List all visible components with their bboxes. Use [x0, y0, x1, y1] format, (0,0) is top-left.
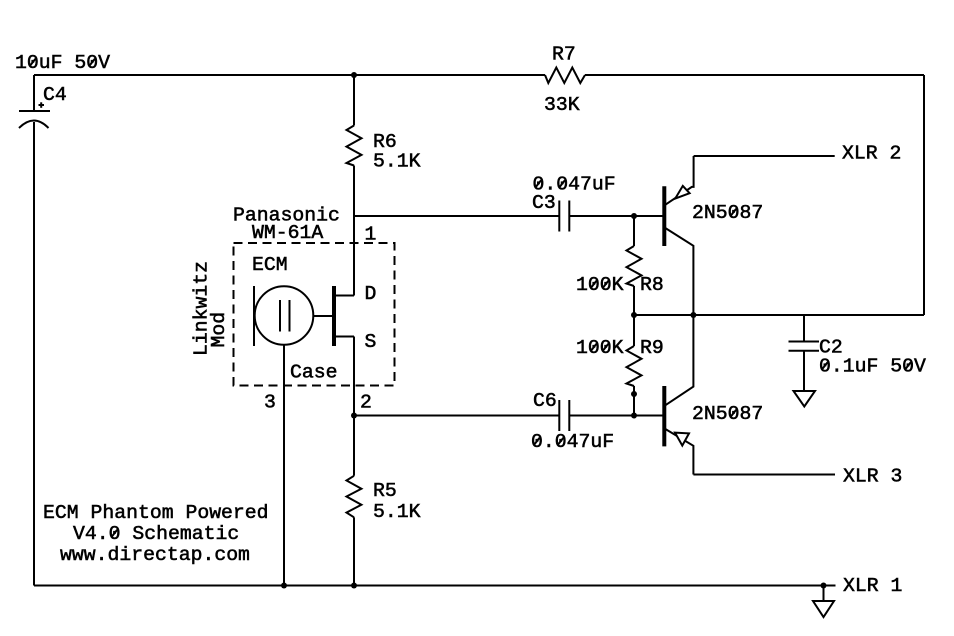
wire: right vertical rail — [923, 75, 925, 315]
resistor R6 — [347, 126, 362, 166]
svg-text:C6: C6 — [533, 390, 557, 412]
capsule plate bar right — [289, 300, 291, 332]
svg-text:R8: R8 — [640, 274, 664, 296]
wire: FET source stub — [334, 336, 354, 338]
capacitor C3 — [558, 201, 560, 232]
wire: XLR1 ground stub — [823, 586, 825, 602]
svg-text:R9: R9 — [640, 337, 664, 359]
wire: top rail right segment — [585, 74, 924, 76]
wire: R9 bottom lead — [633, 386, 635, 416]
svg-text:S: S — [365, 331, 377, 353]
node junction Q1 collector/mid rail — [690, 312, 696, 318]
node junction top rail / R6 — [351, 72, 357, 78]
capacitor C6 — [558, 400, 560, 431]
FET gate/channel bar — [332, 286, 336, 346]
wire: C6 to Q2 base — [570, 415, 663, 417]
svg-text:2N5087: 2N5087 — [692, 202, 763, 224]
svg-text:0.047uF: 0.047uF — [533, 174, 616, 196]
svg-text:2: 2 — [360, 392, 372, 414]
wire: case lead down from capsule — [283, 345, 285, 586]
node junction case/ground rail — [281, 583, 287, 589]
node junction R8/mid rail — [631, 312, 637, 318]
wire: capsule gate lead — [313, 315, 334, 317]
C4 plus sign — [39, 104, 45, 106]
svg-text:10uF 50V: 10uF 50V — [15, 52, 110, 74]
resistor R5 — [347, 476, 362, 518]
svg-text:5.1K: 5.1K — [373, 501, 421, 523]
svg-text:Case: Case — [290, 362, 337, 384]
wire: Q2 emitter diagonal — [665, 429, 694, 475]
wire: mid horizontal rail (collector bus) — [634, 314, 924, 316]
svg-text:33K: 33K — [544, 94, 580, 116]
svg-text:R7: R7 — [552, 44, 576, 66]
capacitor C2 lead — [803, 315, 805, 342]
resistor R9 — [627, 346, 642, 386]
svg-text:www.directap.com: www.directap.com — [60, 544, 250, 566]
capacitor C4 — [33, 75, 35, 111]
Q1 emitter arrow — [675, 186, 689, 199]
wire: pin 1 net to C3 — [354, 215, 559, 217]
node junction ground rail/XLR1 — [821, 583, 827, 589]
wire: XLR 3 output lead — [693, 474, 835, 476]
node junction R9/C6 net — [631, 413, 637, 419]
wire: C2 to ground — [803, 351, 805, 391]
wire: R9 top lead — [633, 315, 635, 346]
svg-text:0.1uF 50V: 0.1uF 50V — [819, 356, 926, 378]
svg-text:2N5087: 2N5087 — [692, 403, 763, 425]
resistor R7 — [545, 68, 585, 84]
svg-text:C4: C4 — [43, 84, 67, 106]
wire: FET drain stub — [334, 295, 354, 297]
resistor R8 — [627, 246, 642, 286]
Q2 emitter arrow — [675, 433, 689, 446]
transistor Q1 2N5087 base bar — [662, 186, 666, 246]
svg-text:5.1K: 5.1K — [373, 151, 421, 173]
wire: R8 bottom lead — [633, 286, 635, 315]
transistor Q2 2N5087 base bar — [662, 386, 666, 446]
svg-text:3: 3 — [264, 392, 276, 414]
wire: Q2 collector diagonal — [665, 315, 694, 406]
svg-text:XLR 1: XLR 1 — [843, 575, 902, 597]
svg-text:ECM: ECM — [252, 254, 288, 276]
node junction R5/ground rail — [351, 583, 357, 589]
svg-text:XLR 2: XLR 2 — [842, 143, 901, 165]
electret capsule diaphragm bar — [253, 286, 255, 346]
wire: XLR 2 output lead — [694, 155, 835, 157]
slashed-zero tick marks — [30, 59, 911, 537]
wire: Q1 emitter diagonal — [665, 156, 694, 205]
electret capsule circle — [255, 286, 314, 345]
wire: C3 to Q1 base — [570, 215, 663, 217]
node junction C3/R8 — [631, 213, 637, 219]
svg-text:0.047uF: 0.047uF — [531, 431, 614, 453]
wire: C6 net from pin 2 — [354, 415, 559, 417]
wire: Q1 collector diagonal — [665, 228, 694, 316]
wire: R6 top lead — [353, 75, 355, 126]
svg-text:Mod: Mod — [208, 312, 230, 348]
svg-text:V4.0 Schematic: V4.0 Schematic — [73, 523, 239, 545]
wire: FET source down to ground rail — [353, 337, 355, 476]
svg-text:D: D — [365, 283, 377, 305]
svg-text:XLR 3: XLR 3 — [843, 466, 902, 488]
ground (XLR1) — [813, 601, 834, 617]
wire: top rail left segment (V+ net) — [34, 74, 545, 76]
ground (C2) — [794, 391, 816, 407]
dashed ECM module boundary box — [234, 243, 395, 386]
wire: left vertical rail — [33, 122, 35, 586]
wire: R5 bottom lead — [353, 517, 355, 585]
svg-text:100K: 100K — [576, 274, 624, 296]
node junction pin2/C6 net — [351, 413, 357, 419]
svg-text:100K: 100K — [576, 337, 624, 359]
wire: R6 bottom lead to FET drain — [353, 166, 355, 296]
capsule plate bar left — [279, 300, 281, 332]
wire: R8 top lead — [633, 216, 635, 246]
node R9 pin junction — [631, 391, 637, 397]
wire: bottom ground rail — [34, 585, 836, 587]
capacitor C2 — [789, 341, 820, 343]
svg-text:ECM Phantom Powered: ECM Phantom Powered — [43, 502, 269, 524]
svg-text:WM-61A: WM-61A — [252, 222, 323, 244]
svg-text:R5: R5 — [373, 480, 397, 502]
